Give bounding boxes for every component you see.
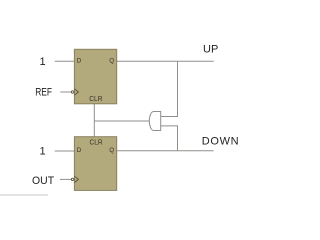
svg-text:REF: REF — [35, 87, 52, 99]
wire: AND input B stub — [161, 125, 178, 127]
U1 clock bubble — [71, 91, 73, 93]
wire: AND output to CLR node — [94, 120, 150, 122]
svg-text:UP: UP — [203, 44, 218, 56]
wire: U2.Q to DOWN net — [117, 150, 214, 152]
svg-text:Q: Q — [109, 58, 114, 65]
D flip-flop U1 body — [74, 49, 116, 104]
svg-text:DOWN: DOWN — [202, 136, 240, 148]
wire: UP branch down to AND input A — [177, 61, 179, 116]
svg-text:D: D — [77, 58, 82, 65]
svg-text:CLR: CLR — [90, 139, 103, 146]
U2 clock bubble — [71, 178, 73, 180]
wire: net 1 to U2.D — [55, 150, 74, 152]
wire: DOWN branch up to AND input B — [177, 126, 179, 151]
svg-text:D: D — [77, 147, 82, 154]
svg-text:OUT: OUT — [32, 175, 54, 187]
AND gate U3 (left-facing) — [149, 112, 160, 131]
wire: AND input A stub — [161, 116, 178, 118]
D flip-flop U2 body — [74, 137, 116, 191]
wire: U1.Q to UP net — [117, 60, 214, 62]
U1 clock wedge — [74, 89, 78, 95]
wire: U1.CLR to U2.CLR vertical — [93, 104, 95, 137]
wire: REF to U1 clock — [60, 91, 71, 93]
svg-text:Q: Q — [109, 147, 114, 154]
wire: clipped faint segment at bottom-left edge — [0, 194, 48, 196]
svg-text:CLR: CLR — [89, 96, 102, 103]
U2 clock wedge — [74, 176, 78, 182]
wire: OUT to U2 clock — [60, 178, 71, 180]
svg-text:1: 1 — [40, 146, 46, 158]
wire: net 1 to U1.D — [55, 60, 74, 62]
svg-text:1: 1 — [40, 56, 46, 68]
